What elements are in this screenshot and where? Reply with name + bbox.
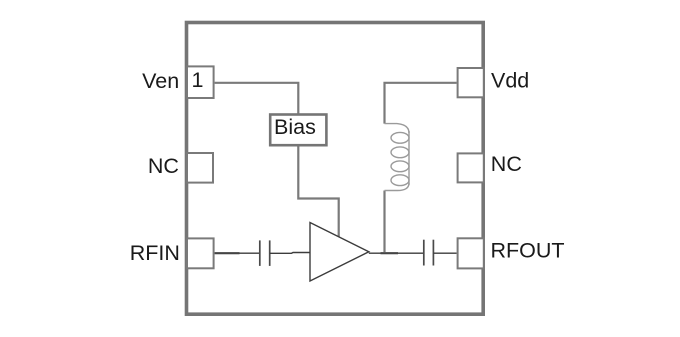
pin 6 box (Vdd): [458, 68, 484, 97]
wire RFIN pin to input capacitor: [215, 252, 260, 254]
package outline: [187, 23, 484, 315]
pin 3 box (RFIN): [187, 238, 214, 268]
pin 2 box (NC left): [187, 153, 213, 183]
pin 4 box (RFOUT): [458, 238, 484, 268]
wire amplifier output to output capacitor: [369, 252, 424, 254]
svg-text:Ven: Ven: [142, 69, 179, 93]
svg-text:RFOUT: RFOUT: [491, 238, 565, 262]
wire input capacitor to amplifier input: [270, 252, 310, 255]
wire stub at RFIN pin: [215, 252, 240, 254]
capacitor C_out plates: [424, 240, 434, 266]
capacitor C_in plates: [260, 240, 270, 266]
wire stub at output node junction: [381, 252, 399, 254]
svg-text:1: 1: [192, 68, 204, 92]
inductor L1: [385, 124, 410, 191]
wire Bias block to amplifier input: [298, 147, 338, 237]
pin 1 box (Ven): [187, 66, 214, 98]
svg-text:Vdd: Vdd: [491, 69, 529, 93]
amplifier triangle U1: [310, 223, 369, 282]
svg-text:RFIN: RFIN: [130, 241, 180, 265]
wire Vdd pin to inductor top: [385, 83, 457, 124]
svg-text:Bias: Bias: [274, 115, 316, 139]
Bias block: [270, 115, 326, 146]
svg-text:NC: NC: [491, 152, 522, 176]
wire inductor bottom to output node: [383, 191, 385, 254]
wire pin1 Ven to Bias block: [215, 83, 299, 114]
wire output capacitor to RFOUT pin: [433, 252, 456, 254]
pin 5 box (NC right): [458, 153, 484, 182]
svg-text:NC: NC: [148, 154, 179, 178]
